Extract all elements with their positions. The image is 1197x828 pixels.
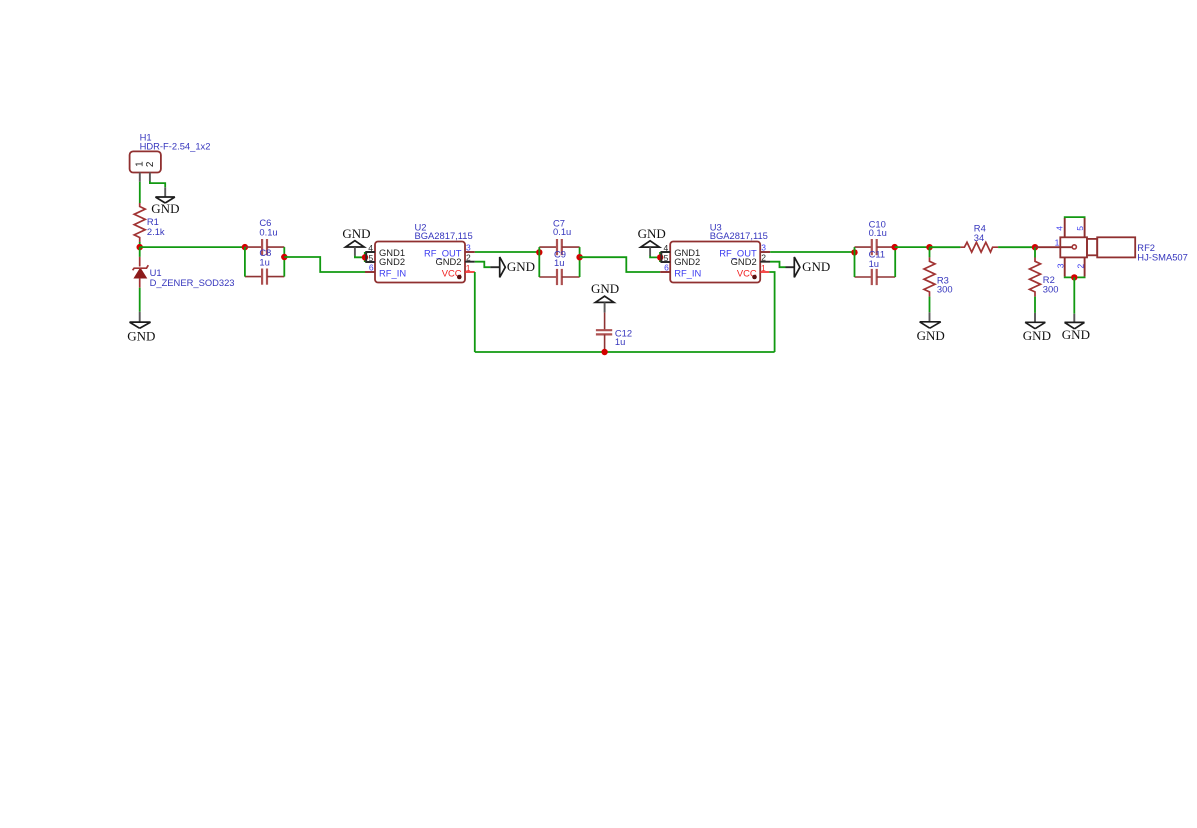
- svg-text:GND: GND: [1062, 327, 1090, 342]
- svg-text:GND2: GND2: [379, 256, 405, 267]
- svg-text:1u: 1u: [869, 258, 879, 269]
- svg-text:BGA2817,115: BGA2817,115: [415, 230, 473, 241]
- GND stem at R2: [1034, 313, 1036, 322]
- svg-text:RF_IN: RF_IN: [674, 267, 701, 278]
- svg-text:1: 1: [761, 263, 766, 273]
- svg-text:6: 6: [369, 262, 374, 272]
- capacitor C12: [604, 313, 606, 331]
- wire U3 RF_OUT to C10: [770, 251, 854, 253]
- resistor R3: [924, 257, 935, 296]
- GND stem at R3: [929, 312, 931, 322]
- svg-text:GND: GND: [591, 281, 619, 296]
- ground symbol at U1: [130, 322, 151, 328]
- node A junction: [137, 244, 143, 250]
- wire RF2 pin4 to pin5: [1065, 217, 1085, 218]
- GND stem at RF2: [1073, 314, 1075, 323]
- svg-text:2: 2: [761, 253, 766, 263]
- wire U3 pin4 pin5 tie: [659, 252, 661, 262]
- capacitor C7: [539, 246, 557, 248]
- svg-text:1u: 1u: [554, 257, 564, 268]
- wire U3 VCC down: [769, 272, 774, 352]
- GND flag stem at U2: [354, 247, 356, 256]
- svg-text:0.1u: 0.1u: [553, 226, 571, 237]
- RF2 pin 2: [1084, 257, 1086, 276]
- ground symbol at U3 pin2: [794, 257, 800, 277]
- node C6 right junction: [281, 254, 287, 260]
- svg-text:1: 1: [466, 263, 471, 273]
- wire C6 C8 left rail: [244, 247, 246, 277]
- node C6 left junction: [242, 244, 248, 250]
- wire C7 C9 left rail: [538, 247, 540, 277]
- svg-text:0.1u: 0.1u: [259, 226, 277, 237]
- resistor R1: [134, 203, 145, 242]
- ground flag at U2: [346, 241, 365, 247]
- wire U3 pin2 to GND: [770, 262, 786, 268]
- svg-text:GND: GND: [342, 226, 370, 241]
- svg-text:GND2: GND2: [674, 256, 700, 267]
- node C7 right junction: [576, 254, 582, 260]
- wire U1 to GND: [139, 288, 141, 312]
- wire C10 C11 left rail: [854, 247, 856, 277]
- svg-text:GND: GND: [802, 259, 830, 274]
- GND lead at U2 pin2: [490, 266, 499, 268]
- connector H1 body: [130, 151, 161, 172]
- svg-text:1u: 1u: [259, 257, 269, 268]
- wire RF2 pin3 to pin2: [1065, 276, 1085, 279]
- node R2 junction: [1032, 244, 1038, 250]
- node RF2 ground junction: [1071, 274, 1077, 280]
- capacitor C9: [539, 276, 557, 278]
- U3 VCC pin dot: [752, 275, 757, 280]
- U2 pin 2: [465, 261, 475, 263]
- wire U2 RF_OUT to C7: [475, 251, 540, 253]
- ground symbol at H1 pin2: [155, 197, 175, 203]
- ground symbol at U2 pin2: [500, 257, 506, 277]
- capacitor C10: [855, 246, 872, 248]
- ground symbol at RF2: [1065, 322, 1085, 328]
- svg-text:1u: 1u: [615, 336, 625, 347]
- wire R3 to GND: [929, 297, 931, 313]
- U2 pin 3: [465, 251, 475, 253]
- svg-text:2: 2: [145, 161, 156, 167]
- svg-text:3: 3: [761, 242, 766, 252]
- op-amp U2 body: [375, 242, 465, 283]
- wire RF2 to GND: [1073, 277, 1075, 313]
- ground symbol at R2: [1025, 322, 1045, 328]
- GND stem at H1 pin2: [164, 187, 166, 196]
- node C10 left junction: [851, 249, 857, 255]
- svg-text:GND: GND: [638, 226, 666, 241]
- U3 pin 1: [760, 271, 769, 273]
- svg-text:2: 2: [1076, 263, 1086, 268]
- svg-text:GND: GND: [917, 328, 945, 343]
- wire C10 C11 right rail: [894, 247, 896, 277]
- wire C10 to R3 node: [895, 246, 930, 248]
- svg-text:1: 1: [135, 161, 146, 167]
- U2 pin 6: [365, 271, 375, 273]
- wire H1 pin2 to GND: [150, 181, 165, 187]
- capacitor C6: [245, 246, 262, 248]
- wire R2 node down: [1034, 247, 1036, 257]
- wire R4 to R2 node: [998, 246, 1035, 248]
- svg-text:2: 2: [466, 253, 471, 263]
- node C7 left junction: [536, 249, 542, 255]
- ground flag at U3: [641, 241, 660, 247]
- RF2 pin 4: [1064, 218, 1066, 237]
- GND stem at U1: [139, 312, 141, 322]
- zener diode U1: [139, 257, 141, 267]
- svg-text:HJ-SMA507: HJ-SMA507: [1137, 251, 1188, 262]
- wire R2 to GND: [1034, 297, 1036, 313]
- U2 pin 4: [366, 252, 375, 262]
- svg-text:2.1k: 2.1k: [147, 226, 165, 237]
- wire R3 node down: [929, 247, 931, 257]
- svg-text:GND2: GND2: [435, 256, 461, 267]
- wire GND flag to U3 pins: [650, 256, 660, 258]
- wire C8 to U2 RF_IN: [284, 257, 365, 272]
- wire node A to C6: [140, 246, 245, 248]
- U3 pin 4: [661, 252, 670, 262]
- op-amp U3 body: [670, 242, 760, 283]
- wire VCC bus: [475, 351, 775, 353]
- GND flag stem at C12: [604, 302, 606, 312]
- svg-text:GND2: GND2: [731, 256, 757, 267]
- svg-text:D_ZENER_SOD323: D_ZENER_SOD323: [150, 277, 235, 288]
- svg-text:300: 300: [937, 284, 953, 295]
- svg-text:3: 3: [466, 242, 471, 252]
- capacitor C8: [245, 276, 262, 278]
- svg-text:6: 6: [664, 262, 669, 272]
- svg-text:GND: GND: [151, 201, 179, 216]
- H1 pin 2 stub: [149, 173, 151, 182]
- RF2 pin 3: [1064, 257, 1066, 276]
- svg-text:3: 3: [1056, 263, 1066, 268]
- svg-text:1: 1: [1055, 238, 1060, 248]
- capacitor C11: [855, 276, 872, 278]
- svg-text:0.1u: 0.1u: [869, 227, 887, 238]
- node C10 right junction: [892, 244, 898, 250]
- svg-text:4: 4: [1055, 226, 1065, 231]
- svg-text:GND: GND: [1023, 328, 1051, 343]
- wire GND flag to U2 pins: [355, 256, 365, 258]
- node U2 ground junction: [362, 254, 368, 260]
- ground flag at C12: [595, 296, 614, 302]
- GND lead at U3 pin2: [786, 266, 795, 268]
- wire H1 pin1 to R1: [139, 182, 141, 203]
- svg-text:4: 4: [663, 243, 668, 253]
- wire node A to U1: [139, 247, 141, 257]
- svg-text:GND: GND: [507, 259, 535, 274]
- svg-text:4: 4: [368, 243, 373, 253]
- ground symbol at R3: [920, 322, 941, 328]
- connector RF2 body: [1060, 237, 1087, 257]
- U3 pin 3: [760, 251, 770, 253]
- GND flag stem at U3: [649, 247, 651, 256]
- node U3 ground junction: [657, 254, 663, 260]
- wire U2 VCC down: [474, 272, 476, 352]
- svg-text:GND: GND: [127, 328, 155, 343]
- svg-text:RF_IN: RF_IN: [379, 267, 406, 278]
- svg-text:5: 5: [1075, 226, 1085, 231]
- RF2 pin 5: [1084, 218, 1086, 237]
- svg-text:BGA2817,115: BGA2817,115: [710, 230, 768, 241]
- U2 VCC pin dot: [457, 275, 462, 280]
- resistor R2: [1030, 258, 1041, 297]
- svg-text:34: 34: [974, 232, 984, 243]
- node R3 junction: [926, 244, 932, 250]
- wire R3 node to R4: [930, 246, 961, 248]
- wire C6 C8 right rail: [283, 247, 285, 277]
- U3 pin 6: [660, 271, 670, 273]
- svg-text:300: 300: [1043, 283, 1059, 294]
- wire U2 pin4 pin5 tie: [364, 252, 366, 262]
- wire C9 to U3 RF_IN: [580, 257, 661, 272]
- connector RF2 pin1 lead: [1035, 246, 1072, 248]
- svg-text:HDR-F-2.54_1x2: HDR-F-2.54_1x2: [140, 140, 211, 151]
- node C12 junction: [601, 349, 607, 355]
- wire C7 C9 right rail: [579, 247, 581, 277]
- H1 pin 1 stub: [139, 173, 141, 182]
- U2 pin 1: [465, 271, 475, 273]
- wire U2 pin2 to GND: [475, 262, 491, 268]
- resistor R4: [960, 242, 998, 252]
- wire R1 to node A: [139, 242, 141, 247]
- U3 pin 2: [760, 261, 770, 263]
